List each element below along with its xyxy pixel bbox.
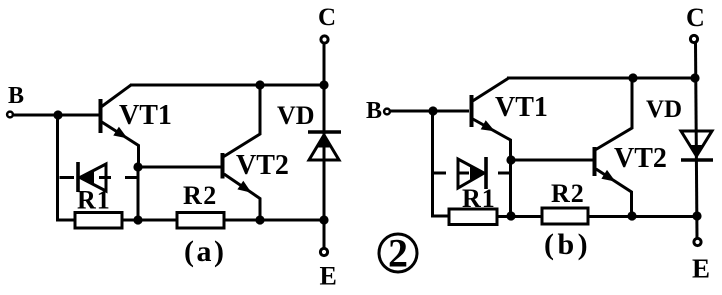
node bottom left xyxy=(133,215,142,224)
svg-text:(a): (a) xyxy=(184,235,226,268)
wire base VT2 xyxy=(511,159,593,162)
svg-text:(b): (b) xyxy=(544,228,591,261)
diode parasitic (points right) xyxy=(458,157,486,189)
diode parasitic (points left) xyxy=(78,162,106,192)
wire bottom rail right xyxy=(224,219,324,222)
terminal C xyxy=(318,4,336,43)
wire top rail xyxy=(130,84,324,87)
node collector rail xyxy=(255,80,264,89)
wire bottom rail left xyxy=(138,219,177,222)
svg-text:B: B xyxy=(366,98,382,124)
svg-text:R1: R1 xyxy=(77,186,111,215)
node B junction xyxy=(428,106,437,115)
svg-text:VT1: VT1 xyxy=(119,100,172,131)
node top rail right xyxy=(319,80,328,89)
svg-text:VD: VD xyxy=(277,101,315,130)
transistor VT1 xyxy=(99,85,172,167)
wire dashed link xyxy=(434,172,509,175)
node bottom left xyxy=(506,211,515,220)
wire bottom rail right xyxy=(588,215,697,218)
resistor R1 xyxy=(75,186,122,229)
svg-text:R1: R1 xyxy=(462,184,496,213)
node emitter VT1 xyxy=(133,162,142,171)
label circled 2 xyxy=(379,231,417,276)
wire left vertical xyxy=(58,115,76,220)
wire R1 to node xyxy=(122,219,138,222)
svg-text:E: E xyxy=(692,254,710,284)
svg-text:C: C xyxy=(318,4,336,31)
node emitter VT2 xyxy=(627,211,636,220)
wire R1 to node xyxy=(497,215,511,218)
wire B to base xyxy=(391,110,470,113)
terminal E xyxy=(692,238,710,283)
wire emitter vertical to rail xyxy=(509,160,512,216)
transistor VT2 xyxy=(221,85,289,220)
svg-text:2: 2 xyxy=(388,231,408,276)
node emitter VT2 xyxy=(255,215,264,224)
svg-text:B: B xyxy=(8,83,24,109)
svg-text:R2: R2 xyxy=(183,181,218,210)
svg-text:VT2: VT2 xyxy=(236,150,289,181)
terminal B xyxy=(366,98,390,124)
wire emitter vertical to rail xyxy=(137,167,140,220)
resistor R2 xyxy=(542,179,588,224)
svg-text:R2: R2 xyxy=(551,179,585,208)
node bottom rail right xyxy=(319,215,328,224)
svg-text:C: C xyxy=(686,3,705,32)
wire bottom rail left xyxy=(511,215,542,218)
node emitter VT1 xyxy=(506,155,515,164)
wire B to base xyxy=(14,114,100,117)
wire dashed link xyxy=(60,176,137,179)
terminal C xyxy=(686,3,705,43)
resistor R2 xyxy=(177,181,224,228)
wire base VT2 xyxy=(138,166,221,169)
wire top rail xyxy=(507,77,696,80)
node top rail right xyxy=(690,73,699,82)
svg-text:VT1: VT1 xyxy=(495,92,548,123)
terminal E xyxy=(320,248,337,290)
transistor VT2 xyxy=(593,78,667,215)
node B junction xyxy=(53,110,62,119)
node collector rail xyxy=(628,73,637,82)
wire left vertical xyxy=(433,111,450,216)
node bottom rail right xyxy=(692,211,701,220)
terminal B xyxy=(7,83,24,117)
svg-text:VD: VD xyxy=(646,96,682,123)
wire C-E branch xyxy=(323,43,326,248)
svg-text:E: E xyxy=(320,262,337,291)
diode VD (points up) xyxy=(277,101,341,160)
diode VD (points down) xyxy=(646,96,713,160)
svg-text:VT2: VT2 xyxy=(614,143,667,174)
resistor R1 xyxy=(449,184,497,225)
wire C-E branch xyxy=(696,43,698,238)
transistor VT1 xyxy=(470,79,548,161)
